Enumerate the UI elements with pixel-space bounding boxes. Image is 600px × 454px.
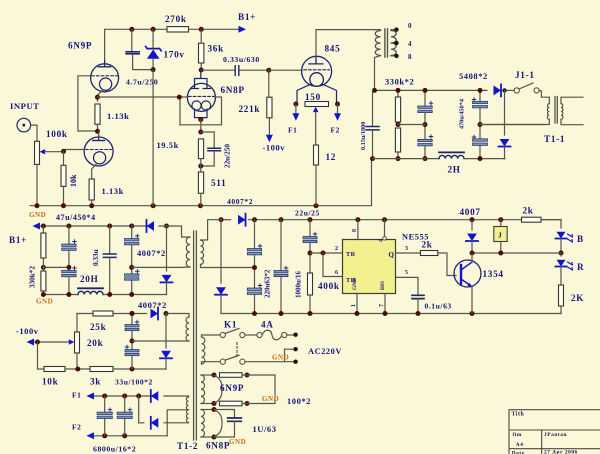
svg-text:511: 511 (211, 178, 226, 188)
svg-text:Date: Date (512, 450, 525, 454)
junction rail pot (35, 203, 40, 208)
pin4 circle (383, 237, 387, 241)
svg-text:6N8P: 6N8P (221, 85, 245, 95)
wire -100v stub (34, 341, 71, 343)
wire 5408 vert (504, 90, 506, 135)
T1-1 core (555, 97, 557, 124)
junction 845 grid node (266, 68, 271, 73)
svg-text:10k: 10k (69, 174, 78, 187)
wire 36k bottom (200, 63, 202, 70)
capacitor 33u b (125, 350, 139, 356)
resistor 100 a (220, 373, 243, 378)
fuse pole b (282, 332, 287, 337)
triode V1a 6N9P circle (91, 64, 119, 92)
wire hum left down (295, 104, 297, 115)
junction 100a r (245, 373, 250, 378)
wire primary bottom (202, 362, 221, 364)
wire cap6800b (124, 396, 126, 412)
resistor 3k (90, 367, 113, 372)
LED B (556, 232, 565, 239)
wire 270k to B1+ arrow (189, 28, 241, 30)
junction zener cap (151, 67, 156, 72)
wire 10k to rail (63, 186, 65, 205)
wire 221k top (268, 70, 270, 97)
title block frame (509, 410, 600, 454)
wire F center tap (167, 410, 188, 436)
junction 25k cap (130, 311, 135, 316)
resistor 330k*2 a (41, 233, 46, 258)
T1-2 winding H2 (201, 410, 204, 438)
wire cap col 132 (131, 226, 133, 239)
junction top rail a (129, 27, 134, 32)
wire 0.33u col (109, 226, 111, 254)
wire cap col 69 mid (68, 251, 70, 271)
wire LED R top (560, 253, 562, 256)
T1-2 winding F upper (186, 397, 188, 410)
wire 425 mid (424, 113, 426, 139)
wire plate node to cap (201, 69, 234, 71)
T1-2 winding H1 (201, 375, 205, 404)
junction 6N8P plate node (199, 68, 204, 73)
resistor 2k b (522, 217, 542, 222)
arrow 20k wiper (69, 339, 75, 345)
svg-text:6N8P: 6N8P (206, 441, 230, 451)
resistor 1.13k lower (89, 179, 94, 200)
diode 4007 b (162, 275, 172, 283)
junction 0.15u bottom (370, 156, 375, 161)
wire 100b right (242, 398, 275, 404)
wire d4007b bottom (166, 282, 168, 294)
wire V2 gk box right (180, 97, 222, 125)
OPT primary coil (375, 31, 380, 56)
wire 330k mid link (398, 124, 425, 126)
svg-text:270k: 270k (165, 14, 187, 24)
T1-1 sec top lead (561, 97, 583, 103)
wire zener line down to rail (152, 70, 154, 206)
wire 2k b right (541, 220, 561, 228)
junction bot 254 (252, 311, 257, 316)
capacitor filter 425a (418, 106, 432, 113)
svg-text:F2: F2 (72, 423, 81, 432)
junction 330k mid (396, 122, 401, 127)
svg-text:221k: 221k (239, 104, 261, 114)
junction 425 top (423, 88, 428, 93)
svg-text:10k: 10k (42, 377, 59, 387)
junction pin2 tap (321, 251, 326, 256)
junction b1 110 (107, 224, 112, 229)
wire cap33 top (131, 314, 133, 325)
svg-text:3k: 3k (90, 377, 101, 387)
wire cap col 69 (68, 226, 70, 244)
capacitor 47u c (125, 239, 139, 245)
capacitor 470u b (473, 139, 488, 146)
wire V1b grid (64, 150, 86, 152)
svg-text:2: 2 (335, 246, 339, 252)
wire 5408b bottom (504, 147, 506, 159)
diode 4007 d (161, 351, 171, 359)
wire 330k2 top (42, 226, 44, 233)
junction cap69 mid (66, 265, 71, 270)
junction V2 grid left (177, 95, 182, 100)
svg-text:5408*2: 5408*2 (459, 71, 488, 81)
wire y253 mid (472, 252, 561, 254)
capacitor 4.7u/250 plates (126, 52, 139, 54)
junction 470u mid (478, 122, 483, 127)
svg-text:B1+: B1+ (9, 235, 27, 245)
wire 1.13k lower to rail (91, 200, 93, 206)
wire hum wiper down (315, 112, 317, 145)
junction 470u bottom (478, 156, 483, 161)
node AC term 1 (293, 333, 297, 337)
svg-text:25k: 25k (90, 322, 107, 332)
svg-text:GND: GND (29, 211, 46, 219)
wire 12 to rail (315, 165, 317, 206)
wire cap6800b b (124, 419, 126, 436)
wire winding A top (159, 226, 190, 237)
svg-text:6N9P: 6N9P (220, 383, 244, 393)
capacitor 47u d (125, 274, 139, 280)
wire F d2 to winding (164, 422, 189, 424)
inductor 20H (78, 291, 103, 294)
Q1 emitter (461, 279, 471, 286)
wire cathode bus y97 (98, 96, 179, 98)
capacitor 47u b (62, 270, 76, 276)
svg-text:B: B (577, 234, 584, 244)
wire V1b plate stem (98, 131, 100, 137)
wire winding HV top (201, 220, 222, 240)
svg-text:1: 1 (351, 304, 357, 307)
wire winding B bottom (132, 340, 189, 342)
wire hum right down (337, 104, 339, 115)
wire pin8 (357, 220, 359, 240)
T1-2 winding F lower (186, 410, 188, 423)
junction bot 385 (383, 311, 388, 316)
node AC term 2 (293, 347, 297, 351)
junction H2 top (212, 407, 217, 412)
resistor 330k b (395, 128, 400, 152)
junction 425 bottom (423, 156, 428, 161)
switch K1 blade top (225, 329, 239, 334)
resistor 100 b (220, 401, 243, 406)
svg-text:400k: 400k (318, 281, 340, 291)
resistor 400k (308, 273, 313, 295)
capacitor 1U/63 (228, 418, 242, 421)
junction 19.5k top (198, 130, 203, 135)
wire cap33 mid (131, 331, 133, 350)
svg-text:1000u/16: 1000u/16 (295, 271, 303, 298)
svg-text:4A: 4A (261, 320, 274, 330)
wire pin2 link (310, 252, 343, 254)
svg-text:7: 7 (379, 304, 385, 307)
arrow F2 left (87, 432, 95, 439)
svg-text:A4: A4 (516, 442, 524, 448)
wire cap4.7u top (131, 29, 133, 51)
capacitor 220u a (247, 249, 261, 255)
junction V1a cathode (95, 95, 100, 100)
wire LED R to 2K (560, 267, 562, 286)
junction rail 1.13k (89, 203, 94, 208)
junction 19.5k 511 (198, 164, 203, 169)
wire rail369 c (113, 368, 166, 370)
junction V2 cathode (198, 117, 203, 122)
845 filament (310, 73, 324, 87)
junction cap33 mid (130, 339, 135, 344)
svg-text:R: R (577, 262, 584, 272)
twisted pair 6N8P (214, 410, 222, 438)
diode 5408 a (494, 85, 502, 95)
svg-text:1.13k: 1.13k (107, 111, 129, 121)
capacitor 22u/250 (208, 148, 221, 151)
junction 100b r (245, 401, 250, 406)
potentiometer 150 hum (305, 102, 329, 107)
svg-text:F1: F1 (72, 391, 81, 400)
svg-text:-100v: -100v (263, 143, 286, 153)
junction 555 rail 281 (279, 217, 284, 222)
svg-text:100*2: 100*2 (287, 396, 311, 406)
capacitor 6800u b (117, 412, 132, 418)
svg-text:100k: 100k (46, 129, 68, 139)
junction b1 43 (41, 224, 46, 229)
wire hv diode down line (220, 220, 222, 283)
wire d relay top (471, 220, 473, 230)
svg-text:3: 3 (405, 246, 409, 252)
capacitor 6800u a (97, 412, 112, 418)
wire cap column 425 top (424, 90, 426, 105)
wire 36k top (200, 29, 202, 43)
junction 425 mid (423, 122, 428, 127)
arrow hum wiper up (313, 107, 319, 113)
Q1 circle (454, 260, 481, 287)
svg-text:47u/450*4: 47u/450*4 (56, 213, 96, 222)
arrow F2 down (334, 113, 341, 121)
wire cap220 mid (254, 255, 256, 288)
diode F d1 (151, 391, 159, 401)
svg-text:0.1u/63: 0.1u/63 (425, 302, 452, 311)
resistor 19.5k (198, 139, 203, 159)
transformer T1-2 core (194, 231, 197, 440)
junction gnd 43 (41, 292, 46, 297)
junction d4007a (164, 224, 169, 229)
wire H2 bottom lead (201, 436, 214, 438)
arrow -100v left (27, 339, 35, 346)
diode 4007 relay (467, 234, 477, 242)
LED R (556, 260, 565, 267)
svg-text:2H: 2H (448, 165, 461, 175)
svg-text:GND: GND (229, 438, 246, 446)
845 circle (302, 56, 332, 86)
svg-text:4007*2: 4007*2 (138, 300, 167, 310)
inductor 2H (439, 155, 464, 158)
input jack J (17, 118, 31, 132)
T1-1 primary bottom lead (480, 119, 549, 124)
capacitor 22u/25 (303, 237, 317, 243)
svg-text:fim: fim (513, 432, 522, 438)
resistor 10k grid (61, 165, 66, 186)
relay J coil (494, 227, 507, 242)
svg-text:36k: 36k (208, 44, 225, 54)
junction bot 472 (470, 311, 475, 316)
diode 4007 c (151, 309, 159, 319)
wire cap220 col (254, 220, 256, 249)
svg-text:B1+: B1+ (238, 12, 256, 22)
wire 400k bot (309, 295, 311, 314)
wire K1b to term (245, 361, 296, 363)
wire d4007d line (165, 314, 167, 349)
svg-text:0.33u: 0.33u (92, 249, 100, 266)
resistor 330k a (395, 97, 400, 122)
wire 0.15u bottom (372, 130, 374, 159)
resistor 12 (314, 145, 319, 165)
wire H1 bottom lead (201, 403, 214, 405)
switch K1 link dashed (236, 343, 238, 358)
svg-text:Q: Q (389, 251, 395, 259)
switch J1-1 blade (519, 83, 533, 89)
svg-text:Tith: Tith (512, 412, 525, 418)
wire J top (500, 220, 502, 227)
wire pot bottom (36, 164, 38, 205)
triode V1b 6N9P circle (84, 137, 113, 166)
wire 330k top (397, 90, 399, 97)
wire H1 top lead (201, 374, 214, 376)
wire pin7 (384, 294, 386, 314)
resistor 25k (93, 311, 113, 316)
svg-text:5: 5 (405, 270, 409, 276)
svg-text:150: 150 (305, 92, 321, 102)
wire 845 grid (269, 69, 302, 71)
switch K1 pole a1 (220, 332, 225, 337)
wire d4007d bottom (165, 358, 167, 369)
svg-text:JPantau: JPantau (544, 432, 567, 438)
wire F d2 branch (139, 396, 144, 423)
wire J bottom (500, 242, 502, 254)
junction F2 b (122, 433, 127, 438)
svg-text:GND: GND (352, 278, 358, 290)
junction 555 rail 254 (252, 217, 257, 222)
wire zener bottom (152, 59, 154, 70)
svg-text:20H: 20H (80, 274, 98, 284)
wire Q1 collector up (471, 253, 473, 262)
IC NE555 body (343, 240, 396, 294)
svg-text:2k: 2k (523, 206, 534, 216)
junction hv top (219, 217, 224, 222)
wire fuse to term (287, 334, 296, 336)
switch J1-1 pole b (534, 88, 539, 93)
T1-1 secondary coil (561, 104, 563, 120)
svg-text:19.5k: 19.5k (157, 140, 179, 150)
svg-text:1U/63: 1U/63 (253, 424, 277, 434)
junction 330k2 mid (41, 265, 46, 270)
wire 330k2 link (42, 258, 44, 271)
svg-text:220u63*2: 220u63*2 (264, 269, 272, 298)
wire cap220 bot (254, 295, 256, 314)
junction top rail b (151, 27, 156, 32)
wire 470u mid (479, 108, 481, 139)
wire 470u to T11 (480, 124, 544, 126)
wire pin5 out (396, 277, 419, 294)
wire 555 rail top (221, 219, 231, 221)
junction 330k top (396, 88, 401, 93)
wire B1+ rail y226 (40, 225, 147, 227)
potentiometer 20k (75, 332, 80, 353)
Q1 collector (461, 263, 472, 271)
wire 2K bottom (560, 306, 562, 314)
svg-text:F2: F2 (331, 126, 340, 135)
junction 5408 node (502, 88, 506, 92)
node AC term 3 (293, 360, 297, 364)
wire gnd rail right (103, 294, 167, 296)
capacitor 220u b (247, 288, 261, 294)
wire Q1 emitter down (471, 287, 473, 314)
T1-2 winding HV (201, 240, 204, 265)
wire between 19.5k 511 (200, 159, 202, 172)
svg-text:T1-2: T1-2 (177, 441, 198, 451)
capacitor 0.15u/630 (366, 127, 379, 130)
wire V2 cathode to box (200, 120, 202, 133)
switch K1 blade bottom (225, 355, 239, 360)
wire hv down bottom (220, 295, 222, 314)
T1-1 primary coil (547, 104, 549, 120)
junction gnd 110 (107, 292, 112, 297)
wire 470u bottom (479, 146, 481, 159)
switch K1 pole b1 (220, 359, 225, 364)
wire cap col 69 bot (68, 277, 70, 295)
wire gnd rail left (43, 294, 78, 296)
junction d4007c r (164, 311, 169, 316)
wire wiper to grid node (45, 151, 64, 153)
LED B arrows (568, 234, 573, 242)
V2 dual plates (191, 70, 210, 88)
junction hum right (335, 102, 340, 107)
wire 470u col top (479, 90, 481, 101)
wire 0.1u bottom (417, 299, 419, 314)
T1-2 winding A (186, 237, 190, 267)
resistor 36k (199, 43, 204, 63)
wire 100a right (242, 375, 275, 395)
svg-text:8: 8 (408, 53, 412, 61)
svg-text:INPUT: INPUT (10, 101, 40, 111)
junction 500 253 (498, 251, 503, 256)
wire LED B to mid (560, 239, 562, 254)
svg-text:6N9P: 6N9P (68, 41, 92, 51)
svg-text:0.33u/630: 0.33u/630 (223, 55, 260, 64)
wire 25k to cap (113, 313, 147, 315)
svg-text:6: 6 (335, 270, 339, 276)
svg-text:DIS: DIS (380, 281, 386, 290)
arrow F1 down (292, 113, 299, 121)
junction F1 a (102, 394, 107, 399)
T1-1 sec bottom lead (561, 119, 583, 124)
junction F1 c (136, 394, 141, 399)
fuse pole a (257, 332, 262, 337)
wire ground rail y205 (30, 159, 372, 206)
diode hv down (216, 287, 226, 295)
zener 170v symbol (146, 46, 162, 50)
junction 220u mid (252, 265, 257, 270)
wire d4007b line (166, 226, 168, 271)
junction hum left (293, 102, 298, 107)
resistor 2k a (420, 251, 437, 256)
Q1 base bar (460, 265, 462, 284)
junction H2 bottom (212, 435, 217, 440)
arrow -100v down (266, 135, 273, 143)
wire 330k bottom (397, 152, 399, 159)
wire winding A bottom (132, 266, 190, 268)
wire cap6800a (104, 396, 106, 412)
OPT sec tap 0 (391, 29, 397, 32)
LED R arrows (568, 262, 573, 270)
svg-text:1354: 1354 (483, 269, 504, 279)
wire 511 to rail (200, 193, 202, 205)
